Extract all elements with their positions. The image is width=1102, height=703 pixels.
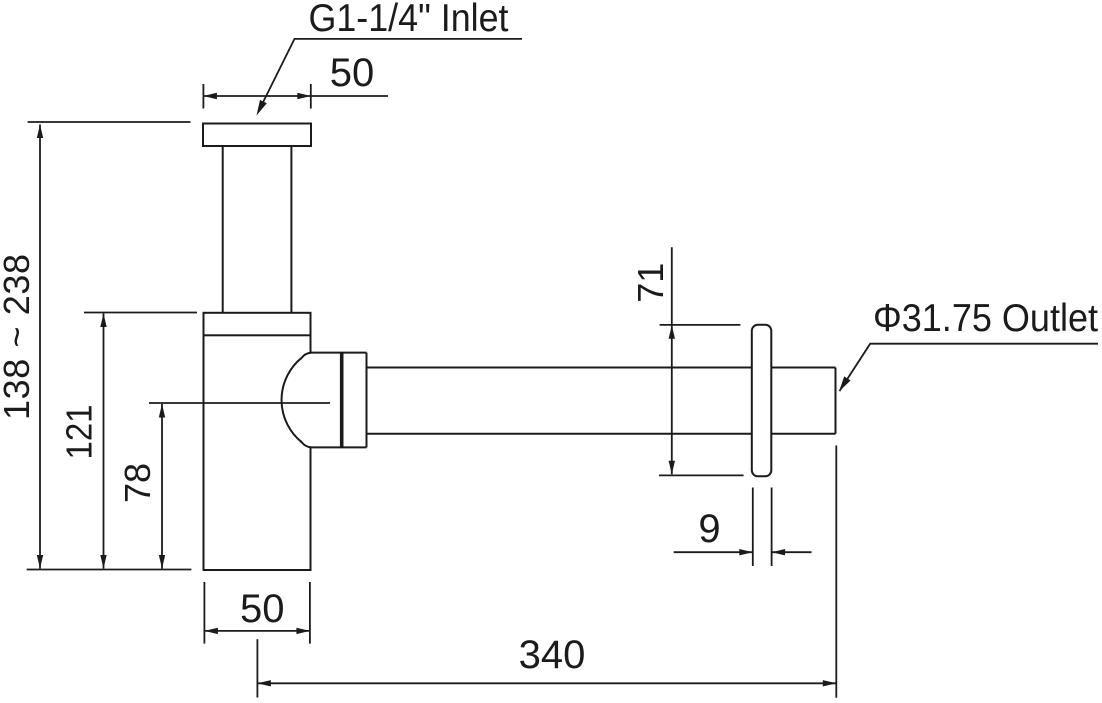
svg-text:50: 50 [240, 587, 285, 631]
dim 138-238 top extension [28, 121, 191, 123]
svg-text:50: 50 [330, 51, 375, 95]
dim 9 left arrow [739, 549, 753, 555]
dim 71 bottom extension [659, 474, 744, 476]
dim 71 bottom arrow [669, 461, 675, 475]
dim 9 left line [674, 551, 753, 553]
dim 78 top arrow [159, 404, 165, 418]
dim 340 right arrow [823, 680, 837, 686]
outlet pipe bottom wall [367, 433, 836, 435]
dim 71 top extension [660, 324, 741, 326]
bottom dim 50 right arrow [296, 628, 310, 634]
inlet leader arrow [257, 100, 267, 116]
inlet tube right wall [290, 146, 292, 313]
union nut inner edge [340, 353, 344, 448]
svg-text:138 ~ 238: 138 ~ 238 [0, 254, 37, 420]
dim 9 right arrow [772, 549, 786, 555]
top dim 50 extension right [310, 84, 312, 109]
dim 121 line [103, 314, 105, 569]
dim 9 extension right [771, 488, 773, 567]
top inlet flange [203, 124, 311, 147]
top dim 50 extension left [202, 84, 204, 109]
bottom dim 50 extension right [309, 582, 311, 644]
svg-text:121: 121 [59, 405, 100, 460]
dim 121 top extension [84, 312, 197, 314]
bottom baseline extension [27, 569, 192, 571]
outlet leader line [840, 344, 1099, 391]
svg-text:Φ31.75 Outlet: Φ31.75 Outlet [873, 297, 1098, 340]
body bottom [203, 569, 312, 571]
bottom dim 50 left arrow [204, 628, 218, 634]
top dim 50 right arrow [297, 93, 311, 99]
dim 340 line [257, 682, 836, 684]
wall flange [752, 325, 772, 477]
inlet tube left wall [222, 146, 224, 313]
dim 138-238 top arrow [37, 125, 43, 139]
bottom dim 50 extension left [203, 582, 205, 644]
pipe centerline [149, 402, 330, 404]
body left wall [203, 335, 205, 570]
dim 78 line [161, 404, 163, 569]
dim 121 bottom arrow [100, 555, 106, 569]
outlet leader arrow [839, 376, 851, 391]
dim 9 extension left [752, 488, 754, 567]
outlet pipe end [835, 368, 837, 434]
dim 71 top arrow [669, 325, 675, 339]
bottom dim 50 line [204, 630, 310, 632]
body top flange [204, 313, 311, 336]
dim 138-238 bottom arrow [37, 555, 43, 569]
svg-text:G1-1/4" Inlet: G1-1/4" Inlet [309, 0, 509, 40]
svg-text:71: 71 [630, 263, 671, 303]
body right wall upper segment [310, 335, 312, 353]
dim 138-238 line [39, 125, 41, 569]
top dim 50 line [203, 95, 388, 97]
dim 121 top arrow [100, 314, 106, 328]
inlet leader line [258, 39, 522, 112]
dim 340 extension left [256, 639, 258, 697]
union nut right edge [366, 353, 368, 448]
svg-text:9: 9 [698, 507, 720, 551]
dim 340 extension right [835, 446, 837, 698]
dim 78 bottom arrow [159, 555, 165, 569]
dim 9 right line [772, 551, 812, 553]
trap elbow dome [282, 353, 367, 448]
dim 71 line [671, 247, 673, 474]
top dim 50 left arrow [203, 93, 217, 99]
body right wall lower segment [310, 446, 312, 570]
dim 340 left arrow [257, 680, 271, 686]
svg-text:78: 78 [117, 463, 158, 503]
svg-text:340: 340 [519, 633, 586, 677]
outlet pipe top wall [367, 367, 836, 369]
